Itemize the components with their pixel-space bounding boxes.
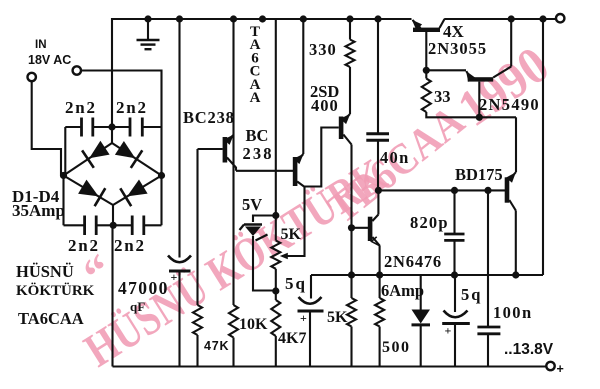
node rail BD175 emitter junction: [512, 271, 519, 278]
svg-text:HÜSNÜ: HÜSNÜ: [16, 262, 74, 281]
wire Q2 emitter diagonal: [297, 182, 304, 187]
node Q5 base junction: [423, 67, 430, 74]
wire divider vertical top: [275, 19, 277, 241]
wire BD175 emitter diagonal: [509, 200, 516, 211]
wire top cap row segment b: [93, 126, 130, 128]
svg-text:33: 33: [434, 87, 451, 106]
node top bus stray junction: [259, 15, 266, 22]
capacitor C5 47000qF electrolytic: [168, 256, 191, 263]
arrow Q6 emitter: [466, 71, 475, 82]
svg-text:500: 500: [382, 339, 411, 356]
wire Q3 collector diagonal: [343, 114, 350, 121]
wire Q4 emitter vertical: [379, 246, 381, 299]
svg-text:2n2: 2n2: [116, 98, 148, 117]
svg-text:IN: IN: [35, 39, 47, 51]
wire Q5 base to 33: [425, 70, 427, 78]
wire 5K wiper: [282, 187, 305, 257]
svg-text:2 3 8: 2 3 8: [243, 144, 272, 163]
terminal AC input left: [28, 73, 36, 81]
transistor Q5 2N3055 base bar: [413, 28, 440, 32]
node Q3 emitter rail junction: [348, 271, 355, 278]
svg-text:5K: 5K: [281, 226, 302, 243]
node top bus Q2 collector junction: [300, 15, 307, 22]
node base line Q4 junction: [375, 187, 382, 194]
arrow Q4 emitter open: [372, 237, 381, 246]
wire Q4 base lead: [352, 227, 369, 229]
wire Q3 emitter vertical: [350, 145, 352, 299]
capacitor C4 2n2 bottom-right: [131, 216, 134, 236]
arrow Q3 collector: [340, 114, 350, 124]
wire 5q-1 top corner: [310, 275, 312, 299]
wire top bus left segment with drop to bridge top corner: [112, 19, 412, 143]
resistor 47K: [193, 305, 202, 335]
wire 5K to bottom bus: [350, 327, 352, 367]
svg-text:10K: 10K: [239, 316, 268, 333]
wire 10K to bottom bus: [232, 338, 234, 367]
wire bottom cap row segment b: [96, 224, 132, 226]
wire bottom cap row segment a: [64, 224, 85, 226]
node top bus ground junction: [144, 15, 151, 22]
wire 40n top: [377, 19, 379, 133]
resistor 4K7: [271, 300, 280, 336]
diode D3 lower-left: [78, 180, 99, 197]
wire 40n bottom: [377, 141, 379, 190]
svg-text:40n: 40n: [380, 148, 410, 167]
watermark HUSNU KOKTURK (pink diagonal): [76, 149, 396, 378]
wire bridge edge bottom-left: [64, 176, 114, 206]
wire 4K7 to bottom bus: [275, 336, 277, 367]
transistor Q7 BD175 base bar: [505, 177, 510, 202]
transistor Q1 BC238 base bar: [223, 137, 228, 163]
wire BD175 collector vertical: [515, 117, 517, 172]
wire Q3 emitter diagonal: [343, 135, 351, 145]
watermark 1990 (pink diagonal): [447, 35, 559, 138]
wire Q2 collector vertical: [302, 19, 304, 154]
resistor 10K: [229, 305, 238, 338]
wire Q1 base down: [196, 149, 198, 305]
wire Q6 emitter feed: [426, 69, 466, 71]
wire 5q-2 bottom: [454, 325, 456, 367]
wire Q1 collector diagonal: [227, 135, 234, 142]
node top bus 2N5490 collector junction: [508, 15, 515, 22]
wire Q6 collector vertical: [510, 19, 512, 67]
wire bridge edge top-left: [64, 143, 113, 176]
potentiometer 5K element: [271, 241, 280, 269]
svg-text:BD175: BD175: [455, 165, 503, 184]
wire Q5 base vertical: [425, 32, 427, 70]
wire rail to top bus right vertical: [542, 19, 544, 275]
resistor 500: [375, 298, 384, 327]
terminal output bottom-right: [546, 362, 554, 370]
resistor 5K: [347, 298, 356, 327]
wire bottom cap row segment c: [144, 224, 162, 226]
resistor 33: [422, 79, 431, 113]
wire emitter rail: [311, 274, 543, 276]
wire 5q-2 top: [454, 275, 456, 312]
svg-text:6Amp: 6Amp: [381, 281, 424, 300]
wire 5K pot to 4K7: [275, 269, 277, 300]
terminal AC input right: [73, 66, 81, 74]
capacitor C7 820p: [444, 233, 464, 236]
node Q4 emitter rail junction: [376, 271, 383, 278]
wire 500 to bottom bus: [379, 327, 381, 367]
svg-text:2N3055: 2N3055: [428, 39, 487, 58]
capacitor C3 2n2 bottom-left: [83, 216, 86, 236]
wire Q1 emitter diagonal: [227, 158, 236, 171]
transistor Q2 BC238 base bar: [293, 157, 298, 186]
wire Q6 base vertical: [478, 82, 480, 118]
wire 47000uF bottom: [178, 273, 180, 367]
arrow Q2 collector: [294, 154, 304, 164]
wire Q2 emitter to 2SD400 base: [304, 128, 339, 187]
svg-text:KÖKTÜRK: KÖKTÜRK: [16, 282, 95, 299]
wire BD175 emitter vertical: [515, 211, 517, 276]
node base line 820p junction: [451, 187, 458, 194]
wire Q5 collector diagonal: [440, 19, 445, 28]
svg-text:330: 330: [309, 40, 337, 59]
wire bridge bottom corner drop to bottom bus: [111, 225, 113, 366]
svg-text:5V: 5V: [242, 195, 262, 214]
transistor Q6 2N5490 base bar: [468, 77, 494, 81]
node divider zener bottom junction: [272, 287, 279, 294]
wire bottom bus: [113, 365, 547, 367]
capacitor C2 2n2 top-right: [129, 118, 132, 137]
wire zener top: [253, 216, 276, 223]
node base line 100n junction: [484, 187, 491, 194]
arrow 5K wiper: [280, 253, 288, 259]
svg-text:2N6476: 2N6476: [384, 252, 442, 271]
diode D5 6Amp: [412, 310, 431, 324]
wire 820p top: [453, 190, 455, 233]
wire right AC input down to bridge right corner: [81, 71, 162, 226]
node top bus 40n junction: [374, 15, 381, 22]
wire Q5 emitter diagonal: [413, 20, 421, 28]
svg-text:100n: 100n: [493, 303, 533, 322]
wire bridge edge bottom-right: [113, 176, 162, 206]
svg-text:4K7: 4K7: [278, 330, 306, 347]
node bridge left corner: [60, 172, 67, 179]
svg-text:A: A: [250, 90, 261, 106]
wire 330 to top bus: [349, 19, 351, 40]
svg-text:+: +: [557, 362, 564, 376]
svg-text:..13.8V: ..13.8V: [504, 341, 554, 358]
svg-text:TA6CAA: TA6CAA: [18, 309, 84, 328]
wire top bus right segment: [444, 18, 556, 20]
svg-text:5K: 5K: [327, 309, 348, 326]
wire Q4 emitter diagonal: [372, 237, 379, 246]
watermark TB6CAA (pink diagonal): [319, 97, 473, 233]
arrow Q1 collector: [224, 135, 234, 145]
svg-text:400: 400: [311, 96, 339, 115]
svg-text:47000: 47000: [118, 278, 169, 298]
node bridge right corner: [158, 172, 165, 179]
wire 6Amp diode top: [420, 275, 422, 310]
wire Q6 emitter diagonal: [466, 71, 470, 77]
svg-text:2N5490: 2N5490: [479, 95, 540, 114]
wire Q1 emitter to Q2 base: [236, 170, 293, 172]
wire Q2 collector diagonal: [297, 154, 303, 161]
wire zener bottom: [253, 236, 276, 291]
svg-text:BC238: BC238: [183, 108, 235, 127]
svg-text:qF: qF: [130, 299, 145, 314]
wire Q4 collector to BD175 base: [378, 189, 505, 191]
arrow BD175 collector: [506, 172, 516, 183]
wire bridge left corner drop to bottom row: [62, 176, 64, 226]
diode D2 upper-right: [115, 141, 135, 158]
ground symbol: [147, 19, 149, 39]
wire 100n bottom: [487, 335, 489, 367]
wire Q6 collector diagonal: [493, 67, 511, 78]
wire Q4 collector vertical: [377, 190, 379, 214]
wire Q1 collector vertical: [232, 19, 234, 305]
wire top cap row segment a: [65, 126, 81, 128]
svg-text:+: +: [171, 270, 178, 284]
wire left AC input to bridge left corner: [32, 81, 61, 175]
svg-text:5q: 5q: [461, 285, 482, 304]
wire Q3 collector vertical: [349, 67, 351, 114]
node top bus right vertical junction: [539, 15, 546, 22]
wire top cap row left drop: [64, 127, 66, 176]
node bottom cap row center junction: [110, 222, 117, 229]
svg-text:2n2: 2n2: [65, 98, 97, 117]
svg-text:47K: 47K: [204, 339, 229, 353]
capacitor C1 2n2 top-left: [80, 118, 83, 137]
capacitor C9 5q electrolytic: [299, 297, 322, 304]
wire top cap row segment c: [142, 126, 161, 128]
diode Z1 5V zener: [244, 223, 262, 226]
wire bridge bottom stem: [112, 205, 114, 225]
capacitor C10 5q electrolytic: [444, 311, 468, 318]
wire Q4 collector diagonal: [372, 215, 378, 222]
transistor Q4 2N6476 base bar: [368, 217, 373, 241]
node 2N5490 base junction: [476, 114, 483, 121]
node Q3 emitter base junction: [348, 224, 355, 231]
watermark stray quote artifact: [74, 244, 122, 299]
wire 33 to base line corner: [426, 112, 516, 117]
svg-text:5q: 5q: [285, 274, 307, 293]
wire 100n top: [487, 190, 489, 326]
svg-text:820p: 820p: [410, 213, 449, 232]
node top bus Q1 collector junction: [230, 15, 237, 22]
svg-text:BC: BC: [246, 126, 269, 145]
node top bus 47000uF junction: [176, 15, 183, 22]
arrow Q5 emitter: [412, 20, 422, 30]
terminal output top-right: [556, 14, 564, 22]
wire BD175 collector diagonal: [509, 172, 516, 180]
svg-text:2n2: 2n2: [68, 236, 100, 255]
transistor Q3 2SD400 base bar: [339, 117, 344, 140]
diode D1 upper-left: [89, 141, 109, 159]
capacitor C6 40n: [366, 132, 389, 135]
svg-text:+: +: [300, 311, 307, 325]
wire 820p bottom: [453, 242, 455, 276]
resistor 330: [346, 40, 355, 68]
wire 6Amp diode bottom: [420, 326, 422, 367]
diode D4 lower-right: [127, 180, 148, 197]
svg-text:2n2: 2n2: [114, 236, 146, 255]
wire bridge edge top-right: [112, 143, 162, 176]
wire 5q-1 bottom: [309, 313, 311, 367]
node divider zener top junction: [272, 212, 279, 219]
svg-text:18V AC: 18V AC: [28, 53, 71, 67]
svg-text:35Amp: 35Amp: [12, 201, 65, 220]
node top cap row center junction: [108, 123, 115, 130]
wire 47K to bottom bus: [196, 335, 198, 367]
node rail 820p junction: [451, 271, 458, 278]
svg-text:+: +: [445, 324, 452, 338]
wire Q1 base lead: [198, 148, 223, 150]
capacitor C8 100n: [477, 326, 500, 329]
node top bus 330 resistor junction: [346, 15, 353, 22]
wire 47000uF top: [178, 19, 180, 258]
